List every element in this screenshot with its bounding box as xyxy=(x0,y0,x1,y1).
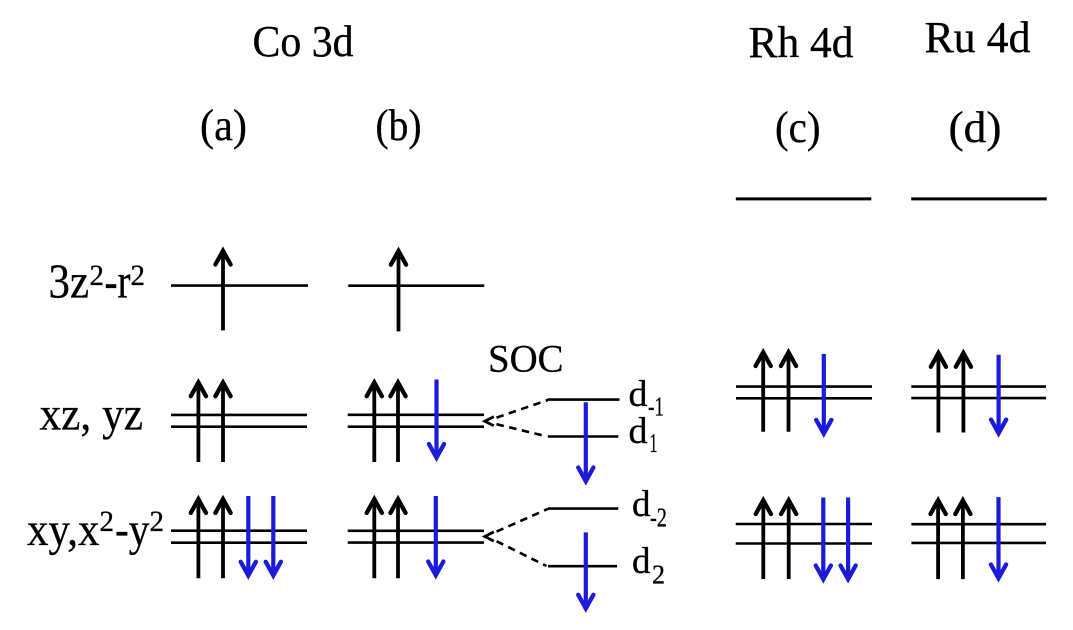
level line a xz-yz upper xyxy=(171,414,307,417)
dashed connector xz-yz to d1 xyxy=(497,424,547,436)
spin-down arrow a xy 2 xyxy=(266,496,281,576)
svg-text:2: 2 xyxy=(90,259,105,292)
svg-text:d: d xyxy=(629,411,649,452)
spin-up arrow c xz-yz 1 xyxy=(756,352,771,431)
svg-text:-1: -1 xyxy=(648,392,664,422)
svg-text:Rh 4d: Rh 4d xyxy=(749,18,854,67)
svg-text:-2: -2 xyxy=(650,503,667,533)
svg-text:-r: -r xyxy=(105,256,131,309)
spin-up arrow d xz-yz 2 xyxy=(956,353,971,432)
svg-text:xz, yz: xz, yz xyxy=(40,389,144,441)
svg-text:d: d xyxy=(632,541,651,582)
level line d-2 xyxy=(548,507,618,510)
dashed arrowhead at xz-yz xyxy=(485,417,494,426)
dashed connector xz-yz to d-1 xyxy=(497,400,549,418)
level line b 3z2-r2 xyxy=(348,284,484,287)
spin-down arrow b xy xyxy=(428,496,443,575)
level line c xz-yz lower xyxy=(736,397,872,400)
spin-up arrow b xy 1 xyxy=(367,499,382,578)
level line d xy lower xyxy=(911,542,1046,545)
level line a xy upper xyxy=(171,529,307,532)
dashed arrowhead at xy xyxy=(485,532,494,541)
spin-down arrow d xz-yz xyxy=(991,355,1006,434)
svg-text:2: 2 xyxy=(131,259,146,292)
empty level line c xyxy=(736,197,872,200)
svg-text:(d): (d) xyxy=(949,103,1002,152)
spin-up arrow c xz-yz 2 xyxy=(781,352,796,431)
spin-up arrow b 3z2-r2 xyxy=(391,251,406,331)
level line d xz-yz upper xyxy=(911,385,1046,388)
level line d2 xyxy=(548,565,617,568)
svg-text:d: d xyxy=(632,484,651,525)
level line b xy upper xyxy=(348,529,484,532)
level line b xz-yz upper xyxy=(348,413,484,416)
level line c xz-yz upper xyxy=(736,385,872,388)
level line b xy lower xyxy=(348,541,484,544)
spin-up arrow b xz-yz 1 xyxy=(367,383,382,463)
level line d xy upper xyxy=(911,523,1046,526)
level line c xy lower xyxy=(736,542,872,545)
spin-up arrow d xy 2 xyxy=(955,500,970,579)
spin-up arrow a 3z2-r2 xyxy=(215,251,230,331)
spin-up arrow a xy 1 xyxy=(191,499,206,578)
svg-text:Ru 4d: Ru 4d xyxy=(925,13,1031,62)
spin-down arrow c xy 2 xyxy=(841,498,856,580)
svg-text:Co 3d: Co 3d xyxy=(253,17,354,66)
svg-text:1: 1 xyxy=(650,428,658,458)
spin-down arrow b xz-yz xyxy=(429,380,444,458)
svg-text:d: d xyxy=(629,374,649,415)
level line d xz-yz lower xyxy=(911,397,1046,400)
svg-text:2: 2 xyxy=(150,505,165,538)
svg-text:(c): (c) xyxy=(775,103,821,152)
svg-text:(a): (a) xyxy=(200,101,247,150)
dashed connector xy to d-2 xyxy=(497,509,549,532)
spin-up arrow a xy 2 xyxy=(215,499,230,578)
svg-text:(b): (b) xyxy=(376,101,422,150)
spin-down arrow d xy xyxy=(991,497,1006,578)
level line d-1 xyxy=(548,398,620,401)
spin-down arrow SOC d2 xyxy=(578,532,593,608)
level line d1 xyxy=(548,435,619,438)
spin-up arrow d xz-yz 1 xyxy=(931,353,946,432)
spin-down arrow c xy 1 xyxy=(816,498,831,580)
spin-up arrow b xz-yz 2 xyxy=(390,383,405,463)
spin-down arrow c xz-yz xyxy=(816,354,831,434)
spin-up arrow b xy 2 xyxy=(390,499,405,578)
level line c xy upper xyxy=(736,523,872,526)
spin-down arrow SOC d1 xyxy=(578,402,593,481)
svg-text:SOC: SOC xyxy=(488,338,564,381)
svg-text:xy,x: xy,x xyxy=(27,504,100,556)
dashed connector xy to d2 xyxy=(497,541,547,566)
spin-up arrow a xz-yz 2 xyxy=(215,383,230,463)
spin-up arrow d xy 1 xyxy=(931,500,946,579)
level line b xz-yz lower xyxy=(348,425,484,428)
spin-up arrow a xz-yz 1 xyxy=(191,383,206,463)
svg-text:2: 2 xyxy=(100,505,115,538)
level line a xy lower xyxy=(171,541,307,544)
svg-text:3z: 3z xyxy=(49,256,90,309)
svg-text:-y: -y xyxy=(115,504,150,556)
spin-up arrow c xy 2 xyxy=(781,500,796,579)
level line a xz-yz lower xyxy=(171,425,307,428)
svg-text:2: 2 xyxy=(652,560,665,590)
level line a 3z2-r2 xyxy=(171,284,308,287)
empty level line d xyxy=(911,197,1047,200)
spin-down arrow a xy 1 xyxy=(241,496,256,576)
spin-up arrow c xy 1 xyxy=(756,500,771,579)
